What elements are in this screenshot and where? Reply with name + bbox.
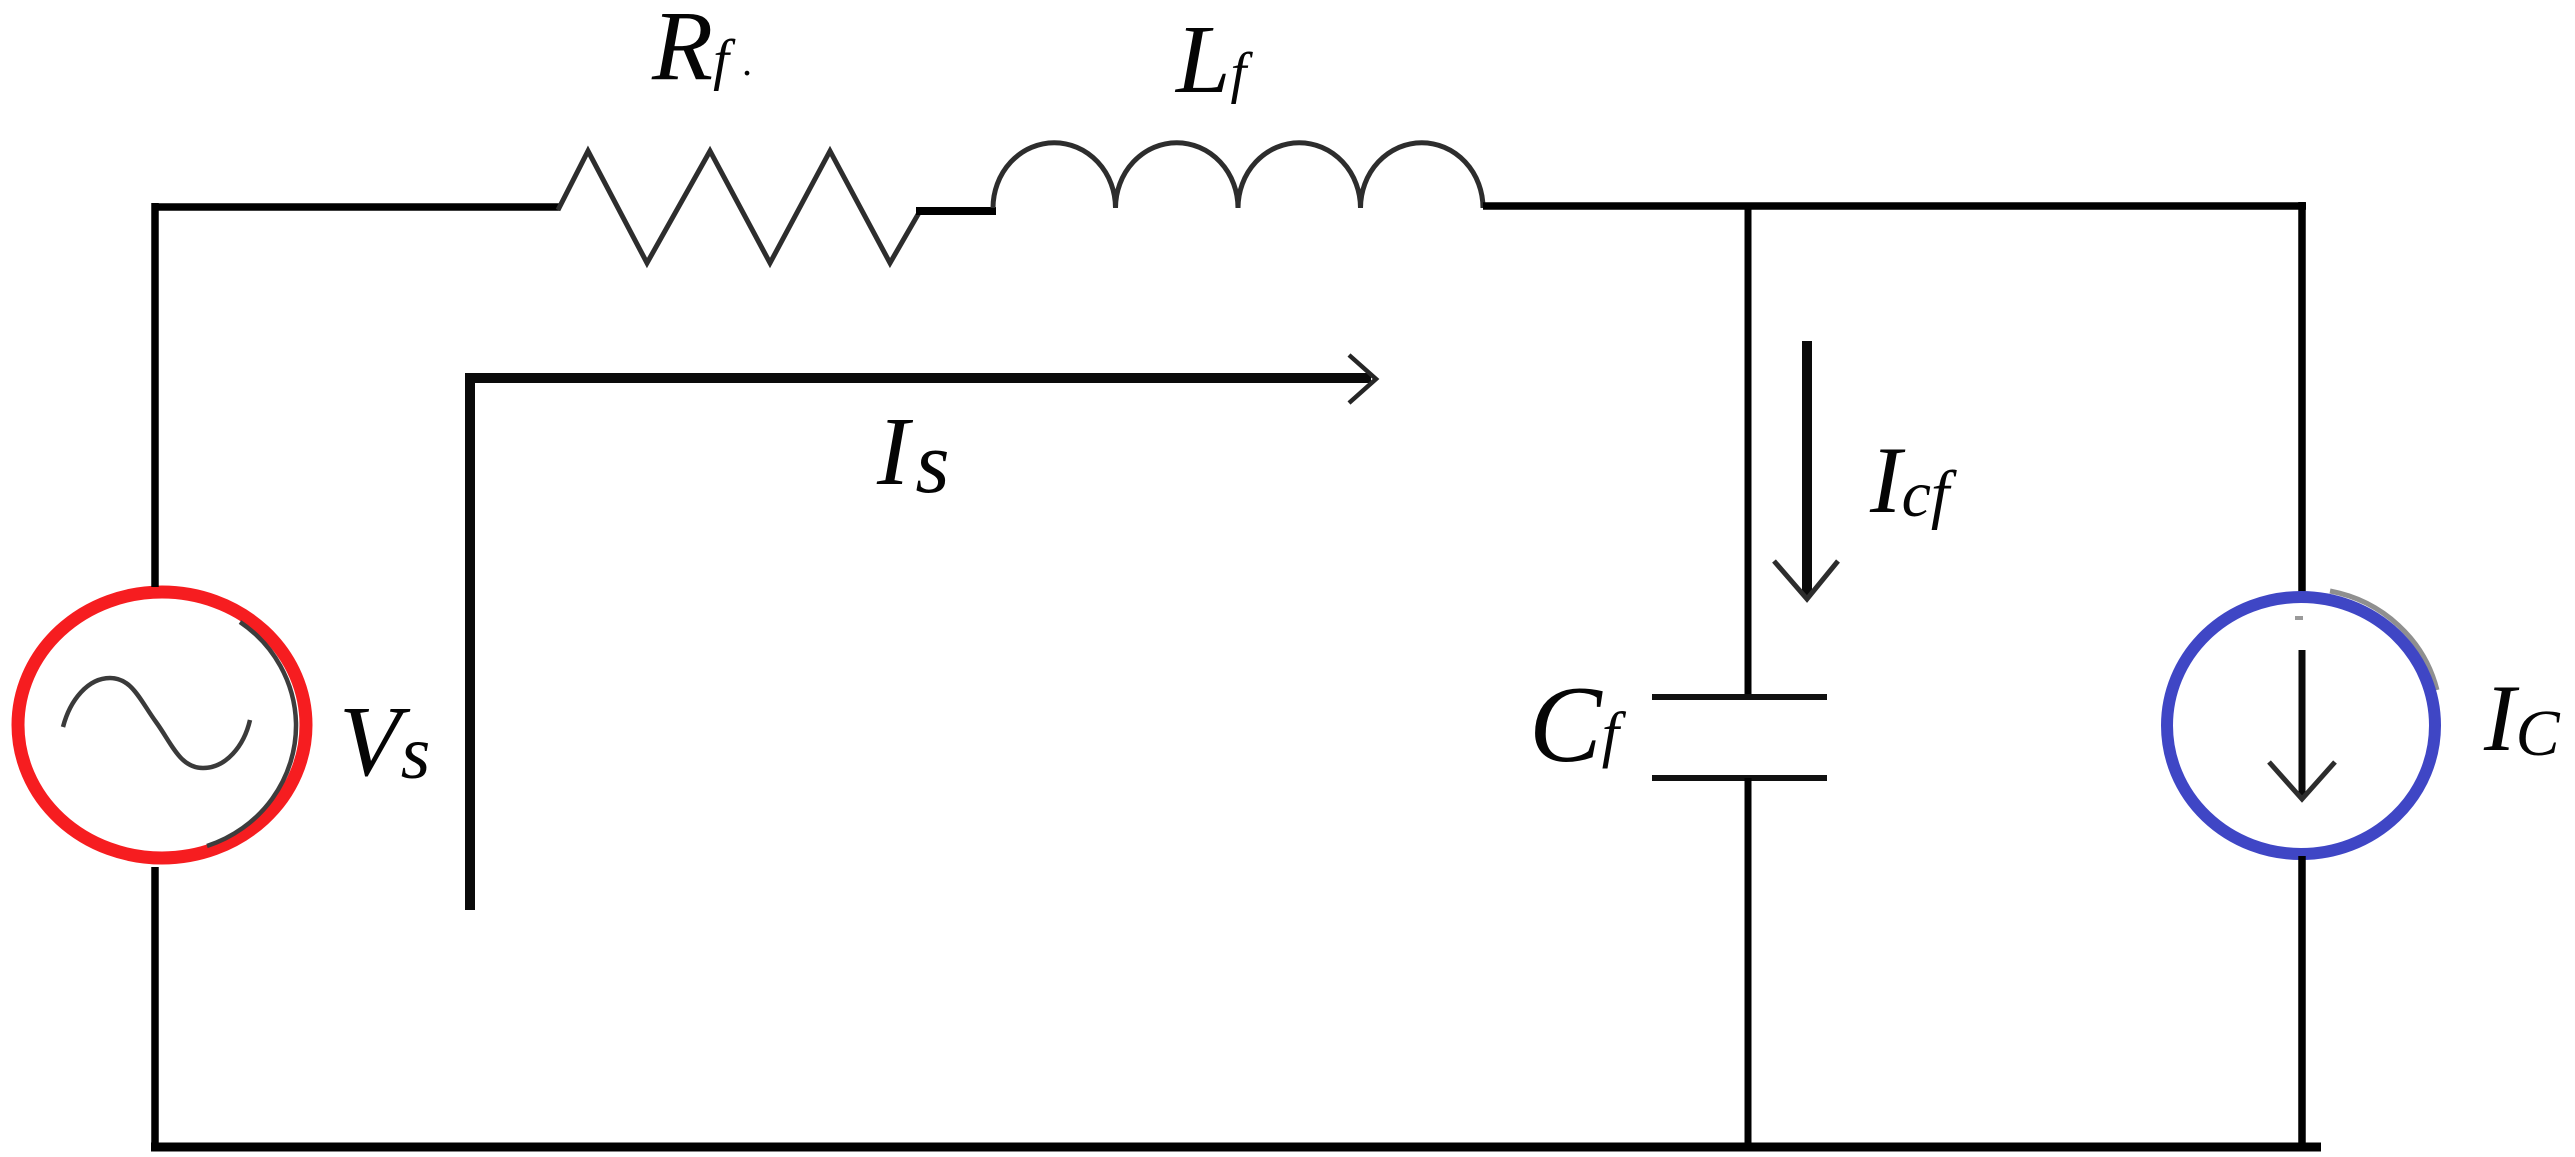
wire: capacitor branch lower vertical — [1745, 778, 1752, 1147]
current source IC ghost gray left tick — [2165, 718, 2168, 748]
wire: right vertical lower — [2298, 856, 2306, 1151]
capacitor Cf top plate — [1652, 694, 1827, 700]
svg-text:Cf: Cf — [1529, 664, 1627, 785]
wire: between resistor and inductor — [916, 207, 996, 215]
wire: right vertical upper — [2298, 202, 2306, 592]
wire: left vertical upper — [151, 203, 159, 587]
wire: capacitor branch upper vertical — [1745, 206, 1752, 694]
capacitor Cf bottom plate — [1652, 775, 1827, 781]
current source IC ghost gray outline arc — [2330, 591, 2437, 690]
current IS arrow vertical tail — [465, 378, 475, 910]
svg-text:Is: Is — [876, 398, 950, 512]
node: junction of capacitor branch with bottom wire — [1745, 1144, 1752, 1151]
current Icf arrowhead chevron — [1774, 561, 1838, 599]
voltage source VS ghost black outline arc — [207, 622, 296, 846]
node: junction of capacitor branch with top wire — [1745, 203, 1752, 210]
current IS arrow horizontal shaft — [465, 373, 1371, 383]
current source IC circle (blue) — [2167, 597, 2435, 854]
inductor Lf arcs — [993, 143, 1483, 208]
current source IC tiny inner dash artifact — [2295, 616, 2303, 620]
voltage source VS circle (red) — [18, 592, 306, 858]
current source IC internal arrow shaft — [2299, 650, 2306, 796]
svg-text:IC: IC — [2483, 665, 2561, 771]
svg-text:Lf: Lf — [1174, 6, 1254, 114]
svg-text:Icf: Icf — [1869, 427, 1957, 533]
svg-text:Vs: Vs — [339, 685, 430, 797]
resistor Rf zigzag — [558, 151, 920, 263]
current source IC internal arrowhead chevron — [2269, 762, 2335, 799]
wire: top-left horizontal segment — [155, 203, 560, 211]
current IS arrowhead chevron — [1349, 355, 1376, 403]
svg-text:Rf.: Rf. — [651, 0, 753, 101]
wire: left vertical lower — [151, 867, 159, 1151]
wire: top-right horizontal from inductor to right corner — [1483, 202, 2306, 210]
voltage source VS sine symbol — [63, 678, 250, 768]
current Icf arrow shaft — [1802, 341, 1812, 597]
wire: bottom horizontal — [151, 1143, 2321, 1152]
